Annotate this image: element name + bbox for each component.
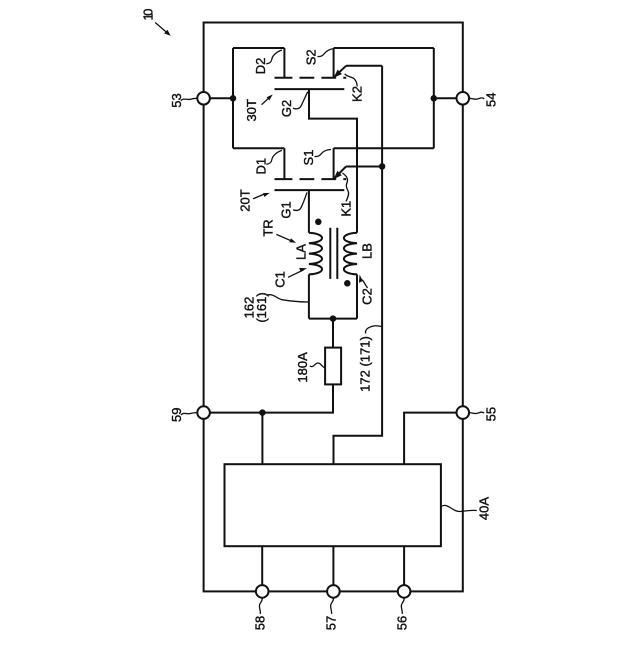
wire S1 lead (333, 148, 335, 179)
terminal 59 (197, 406, 210, 419)
svg-text:10: 10 (141, 9, 156, 21)
svg-text:G2: G2 (279, 100, 294, 117)
wire S2 lead (333, 48, 335, 78)
leader 162(161) (267, 295, 309, 302)
leader 180A (310, 363, 325, 368)
inductor LA winding (309, 233, 322, 275)
leader 55 (469, 412, 484, 413)
svg-text:40A: 40A (477, 497, 492, 520)
leader C2 arrow (362, 280, 367, 288)
wire to terminal 54 (434, 97, 457, 99)
wire 55 to box (404, 413, 457, 465)
leader 172(171) (365, 326, 381, 334)
leader 59 (181, 413, 198, 415)
phase dot LA (315, 219, 322, 226)
leader 40A (441, 505, 477, 511)
wire D2 rail (233, 47, 284, 49)
leader C1 arrow (288, 270, 304, 277)
phase dot LB (344, 280, 351, 287)
wire resistor top lead (332, 319, 334, 348)
svg-text:172 (171): 172 (171) (357, 336, 372, 392)
wire K1 (346, 166, 382, 168)
wire 59 node to box (261, 413, 263, 465)
svg-text:K1: K1 (339, 201, 354, 217)
junction dot left node (230, 95, 237, 102)
wire G2 to LB top (309, 89, 357, 233)
wire box pin to 56 (403, 546, 405, 585)
wire K node to box (334, 166, 383, 464)
leader TR arrow (276, 234, 292, 241)
svg-text:C1: C1 (273, 271, 288, 288)
leader 56 (401, 598, 404, 614)
transistor 30T cathode diagonal K2 (334, 66, 346, 78)
svg-text:54: 54 (484, 93, 499, 107)
svg-text:30T: 30T (244, 99, 259, 121)
svg-text:53: 53 (169, 93, 184, 107)
junction dot transformer bottom (330, 315, 337, 322)
leader 58 (259, 598, 262, 614)
svg-text:59: 59 (169, 408, 184, 422)
outer border (204, 23, 463, 592)
wire box pin to 57 (332, 546, 334, 585)
wire S2 rail (334, 47, 434, 49)
svg-text:LA: LA (294, 244, 309, 260)
wire LA bottom lead (308, 274, 310, 318)
terminal 54 (457, 92, 470, 105)
transistor 20T channel (dashed) (275, 178, 293, 180)
wire D1 lead (283, 148, 285, 179)
svg-text:K2: K2 (350, 86, 365, 102)
wire left loop vertical (232, 48, 234, 148)
svg-text:C2: C2 (360, 288, 375, 305)
transistor 30T gate bar (275, 88, 345, 90)
leader K2 (345, 74, 358, 87)
wire 53 to left node (210, 97, 233, 99)
inductor LB winding (344, 233, 357, 275)
wire G1 lead (308, 190, 310, 233)
leader 30T arrow (262, 97, 270, 104)
wire transformer bottom (309, 318, 357, 320)
svg-text:LB: LB (360, 243, 375, 259)
wire LB bottom lead (356, 274, 358, 318)
svg-text:S1: S1 (301, 150, 316, 166)
svg-text:(161): (161) (254, 292, 269, 322)
resistor 180A (325, 348, 341, 385)
svg-text:TR: TR (261, 219, 276, 236)
wire D1 rail (233, 147, 284, 149)
leader D1 (266, 150, 282, 164)
transistor 30T channel (dashed) (275, 77, 293, 79)
svg-text:57: 57 (324, 616, 339, 630)
junction dot K node (379, 163, 386, 170)
leader S1 (315, 150, 332, 157)
svg-text:D2: D2 (253, 58, 268, 75)
wire box pin to 58 (261, 546, 263, 585)
junction dot node 54 (431, 95, 438, 102)
leader 53 (181, 98, 198, 100)
transformer core (330, 228, 337, 279)
leader D2 (266, 50, 282, 64)
leader 20T arrow (253, 193, 266, 198)
wire D2 lead (283, 48, 285, 78)
transistor 20T cathode diagonal K1 (334, 167, 346, 180)
svg-text:20T: 20T (237, 189, 252, 211)
svg-text:G1: G1 (279, 201, 294, 218)
terminal 56 (398, 585, 411, 598)
wire S1 rail (334, 147, 434, 149)
transistor 20T arrowhead K1 (334, 171, 342, 179)
transistor 20T gate bar (275, 189, 345, 191)
terminal 57 (327, 585, 340, 598)
terminal 55 (457, 406, 470, 419)
leader 54 (469, 98, 484, 99)
leader 57 (331, 598, 334, 614)
leader G2 (293, 92, 308, 109)
svg-text:S2: S2 (304, 49, 319, 65)
svg-text:58: 58 (253, 616, 268, 630)
terminal 58 (256, 585, 269, 598)
transistor 30T arrowhead K2 (334, 70, 342, 78)
leader G1 (293, 192, 307, 210)
leader S2 (318, 49, 333, 57)
leader 10 arrow (155, 23, 166, 33)
wire resistor bottom lead and 59 rail (210, 384, 333, 412)
junction dot 59 rail (259, 409, 266, 416)
leader K1 (342, 173, 348, 202)
control box 40A (225, 464, 441, 546)
wire K2 (346, 66, 382, 167)
svg-text:D1: D1 (253, 158, 268, 175)
terminal 53 (197, 92, 210, 105)
svg-text:56: 56 (395, 616, 410, 630)
svg-text:180A: 180A (295, 352, 310, 383)
svg-text:55: 55 (484, 407, 499, 421)
wire right vertical (433, 48, 435, 148)
